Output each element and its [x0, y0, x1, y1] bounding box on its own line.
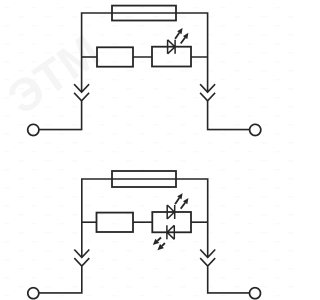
LED V2b emission arrow b: [157, 243, 165, 250]
plug chevron right 2: [200, 258, 215, 266]
resistor R2: [97, 213, 134, 232]
wire right rail lower 2 to terminal: [208, 266, 250, 293]
LED V1 diode: [168, 40, 176, 54]
LED V2b diode (reverse): [167, 225, 174, 239]
LED module box 2: [152, 212, 191, 232]
wire branch right 2: [191, 221, 208, 223]
plug chevron left 1: [74, 93, 89, 101]
fuse F1: [112, 6, 176, 21]
plug chevron left 2: [74, 258, 89, 266]
LED V1 emission arrow a: [175, 28, 183, 39]
terminal circle right 1: [250, 124, 261, 135]
wire branch right 1: [191, 56, 208, 58]
plug arrow left 1: [74, 84, 89, 92]
plug arrow right 1: [200, 84, 215, 92]
plug arrow left 2: [74, 250, 89, 258]
LED V2a emission arrow a: [175, 193, 183, 204]
wire right rail lower 1 to terminal: [208, 101, 250, 130]
wire top bus 2 with upper rails: [82, 179, 208, 258]
plug arrow right 2: [200, 250, 215, 258]
LED V2b emission arrow a: [153, 238, 161, 246]
LED V2a diode: [167, 205, 175, 219]
wire branch mid 2: [133, 221, 152, 223]
terminal circle right 2: [250, 288, 261, 299]
wire left rail lower 1 to terminal: [39, 101, 82, 130]
resistor R1: [97, 47, 133, 66]
terminal circle left 1: [28, 124, 39, 135]
LED V1 emission arrow b: [181, 33, 189, 44]
LED V2a emission arrow b: [181, 198, 189, 209]
wire branch mid 1: [133, 56, 152, 58]
LED module box 1: [152, 47, 191, 67]
wire branch left 2: [82, 221, 97, 223]
wire branch left 1: [82, 56, 97, 58]
terminal circle left 2: [28, 288, 39, 299]
fuse F2: [112, 171, 176, 187]
wire left rail lower 2 to terminal: [39, 266, 82, 293]
wire top bus 1 with upper rails: [82, 13, 208, 92]
plug chevron right 1: [200, 93, 215, 101]
